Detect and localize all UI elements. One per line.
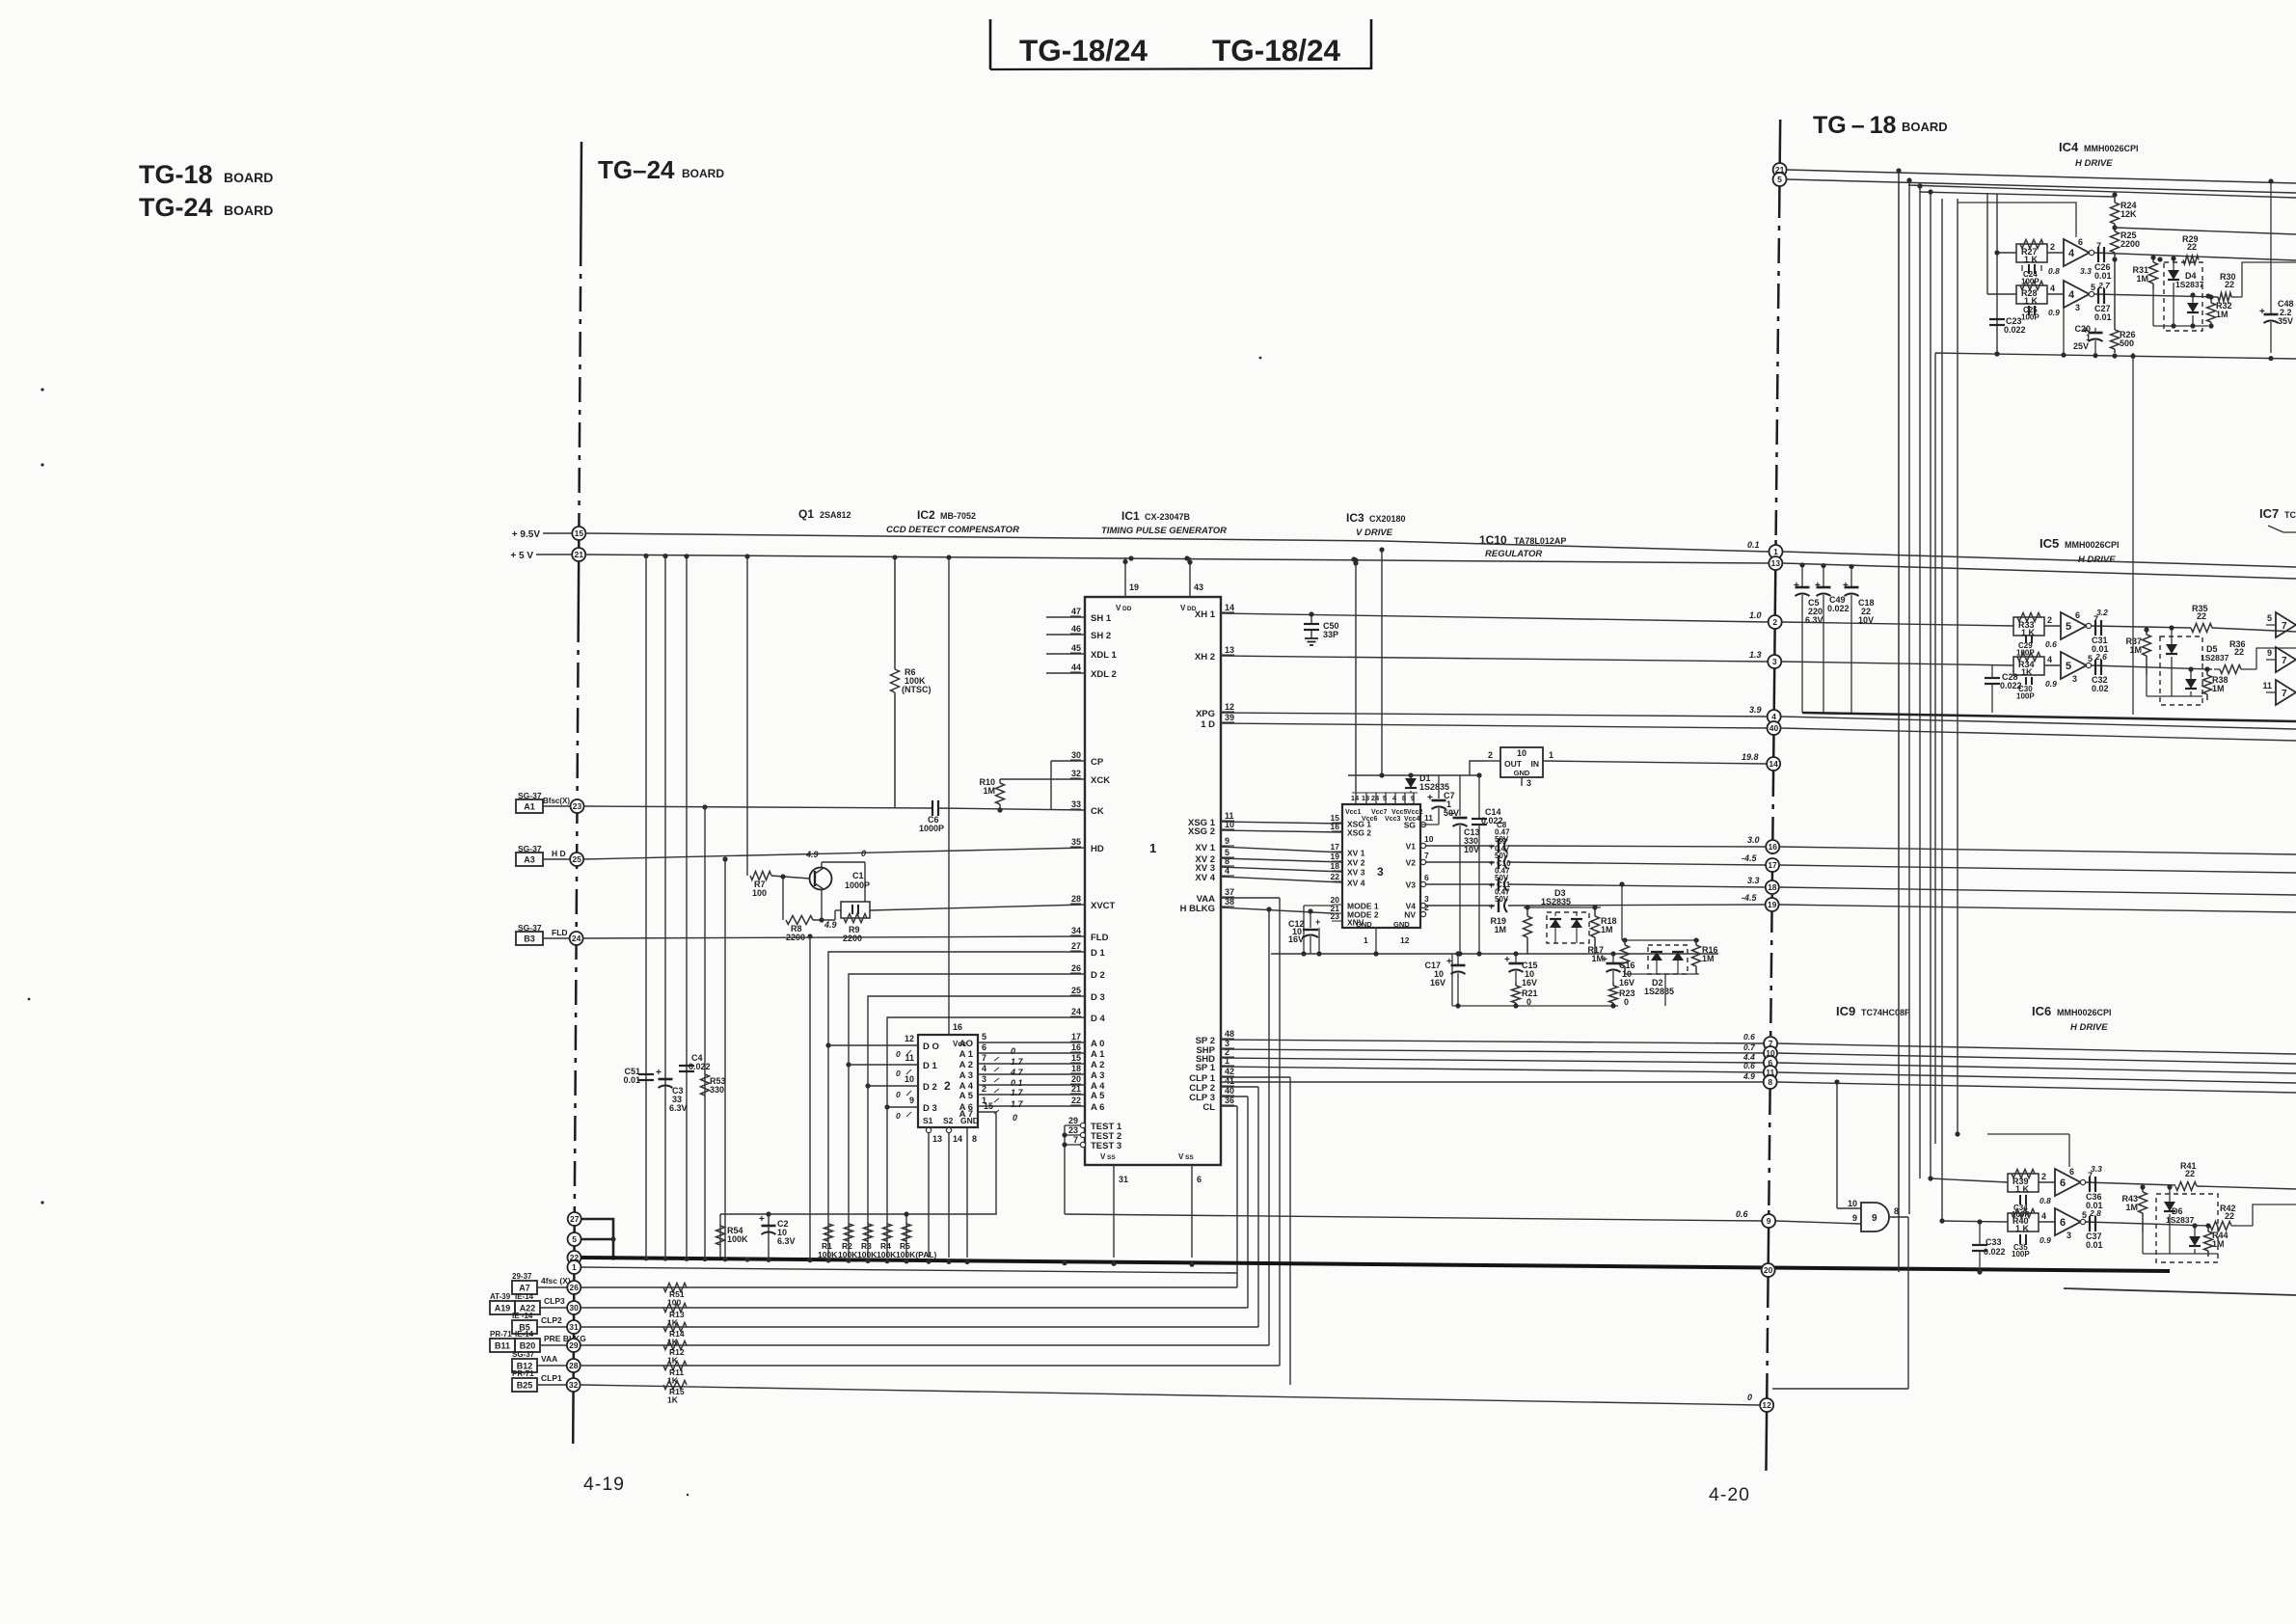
svg-text:IC4: IC4 — [2059, 140, 2079, 154]
svg-text:0.1: 0.1 — [1747, 540, 1760, 550]
svg-text:13: 13 — [932, 1134, 942, 1144]
svg-text:11: 11 — [905, 1053, 914, 1063]
svg-text:16: 16 — [1071, 1042, 1081, 1052]
svg-text:A 1: A 1 — [1091, 1049, 1105, 1060]
svg-text:0.6: 0.6 — [1743, 1032, 1755, 1042]
svg-text:CLP3: CLP3 — [544, 1296, 565, 1306]
svg-text:Q1: Q1 — [798, 507, 814, 521]
svg-text:XDL 1: XDL 1 — [1091, 650, 1117, 661]
svg-text:A 3: A 3 — [959, 1070, 973, 1081]
svg-text:22: 22 — [2225, 280, 2234, 289]
svg-text:+: + — [1843, 581, 1849, 591]
svg-text:10: 10 — [905, 1074, 914, 1084]
svg-text:42: 42 — [1225, 1067, 1234, 1076]
svg-text:XV 4: XV 4 — [1195, 873, 1215, 883]
svg-text:0.01: 0.01 — [2094, 312, 2112, 322]
svg-text:6.3V: 6.3V — [1805, 615, 1823, 625]
svg-text:8: 8 — [1894, 1206, 1899, 1216]
svg-text:1K: 1K — [667, 1395, 679, 1405]
svg-text:0.022: 0.022 — [2004, 325, 2026, 335]
svg-text:IC3: IC3 — [1346, 511, 1364, 525]
svg-text:CX-23047B: CX-23047B — [1145, 512, 1191, 522]
svg-text:33: 33 — [1071, 799, 1081, 809]
svg-text:XV 4: XV 4 — [1347, 879, 1365, 888]
svg-text:A 0: A 0 — [1091, 1039, 1104, 1049]
svg-text:29-37: 29-37 — [512, 1272, 532, 1281]
svg-text:5: 5 — [1777, 175, 1782, 184]
svg-text:Vcc2: Vcc2 — [1407, 809, 1422, 816]
svg-text:SG-37: SG-37 — [512, 1350, 535, 1359]
svg-text:4: 4 — [1771, 712, 1776, 721]
svg-text:0: 0 — [896, 1069, 901, 1078]
svg-text:VAA: VAA — [541, 1354, 557, 1364]
svg-text:1: 1 — [1773, 547, 1778, 556]
svg-text:12: 12 — [1400, 935, 1410, 945]
svg-text:6: 6 — [1197, 1175, 1202, 1184]
svg-text:1S2837: 1S2837 — [2175, 280, 2204, 289]
svg-text:6: 6 — [2078, 237, 2083, 247]
svg-text:20: 20 — [1764, 1265, 1773, 1275]
svg-text:2: 2 — [2047, 615, 2052, 625]
svg-text:BOARD: BOARD — [1902, 120, 1948, 134]
svg-text:+: + — [1815, 581, 1821, 591]
svg-text:C33: C33 — [1985, 1237, 2002, 1247]
svg-text:S2: S2 — [943, 1116, 954, 1125]
svg-text:16V: 16V — [1619, 978, 1634, 988]
svg-text:7: 7 — [2282, 621, 2287, 632]
svg-text:CLP1: CLP1 — [541, 1373, 562, 1383]
svg-text:1 K: 1 K — [2021, 628, 2036, 637]
svg-text:XV 1: XV 1 — [1195, 843, 1215, 853]
svg-text:Vcc3: Vcc3 — [1385, 816, 1400, 823]
svg-text:0: 0 — [1011, 1046, 1015, 1056]
svg-text:24: 24 — [1071, 1007, 1081, 1016]
svg-text:7: 7 — [1424, 851, 1429, 860]
svg-text:9: 9 — [1225, 836, 1229, 846]
svg-text:1M: 1M — [2125, 1203, 2138, 1212]
svg-text:5: 5 — [2066, 621, 2071, 633]
svg-text:3.3: 3.3 — [2091, 1164, 2102, 1174]
svg-text:46: 46 — [1071, 624, 1081, 634]
svg-text:REGULATOR: REGULATOR — [1485, 549, 1542, 559]
svg-text:14: 14 — [1351, 794, 1360, 802]
svg-text:2: 2 — [1488, 750, 1493, 760]
svg-text:V: V — [1116, 604, 1121, 612]
svg-text:1: 1 — [1549, 750, 1553, 760]
svg-text:D 3: D 3 — [1091, 992, 1105, 1003]
svg-text:PR-71: PR-71 — [512, 1369, 534, 1378]
svg-text:D 4: D 4 — [1091, 1014, 1106, 1024]
svg-text:22: 22 — [2185, 1169, 2195, 1178]
svg-text:6: 6 — [2060, 1177, 2066, 1189]
svg-text:D 1: D 1 — [1091, 948, 1106, 959]
svg-text:0: 0 — [1624, 997, 1629, 1007]
svg-text:1S2835: 1S2835 — [1541, 897, 1571, 907]
svg-text:0: 0 — [1526, 997, 1531, 1007]
svg-text:8: 8 — [972, 1134, 977, 1144]
svg-text:B3: B3 — [524, 934, 535, 944]
svg-text:2200: 2200 — [2120, 239, 2140, 249]
svg-text:4: 4 — [2041, 1211, 2046, 1221]
svg-text:1.7: 1.7 — [1011, 1057, 1024, 1067]
svg-text:12: 12 — [905, 1034, 914, 1043]
svg-text:V2: V2 — [1406, 858, 1417, 868]
svg-text:4.7: 4.7 — [1010, 1068, 1024, 1077]
svg-text:2200: 2200 — [786, 933, 805, 942]
svg-text:100P: 100P — [2021, 313, 2039, 322]
svg-text:XVCT: XVCT — [1091, 901, 1116, 911]
svg-text:7: 7 — [2282, 689, 2287, 699]
svg-text:27: 27 — [1071, 941, 1081, 951]
svg-text:16V: 16V — [1288, 934, 1304, 944]
svg-text:29: 29 — [1068, 1116, 1078, 1125]
svg-text:0.9: 0.9 — [2048, 308, 2060, 317]
svg-text:3: 3 — [1526, 778, 1531, 788]
svg-text:3.3: 3.3 — [1747, 876, 1760, 885]
svg-text:500: 500 — [2120, 338, 2134, 348]
svg-text:GND: GND — [1393, 920, 1410, 929]
svg-text:A7: A7 — [519, 1284, 530, 1293]
svg-text:1.7: 1.7 — [1011, 1099, 1024, 1109]
svg-text:0: 0 — [896, 1090, 901, 1099]
svg-text:SS: SS — [1107, 1154, 1116, 1161]
svg-text:4: 4 — [2047, 655, 2052, 664]
svg-text:IC7: IC7 — [2259, 506, 2279, 521]
svg-text:A 5: A 5 — [959, 1091, 974, 1101]
svg-text:8: 8 — [1768, 1077, 1772, 1087]
svg-text:20: 20 — [1071, 1074, 1081, 1084]
svg-text:+: + — [1446, 957, 1452, 967]
svg-text:XV 2: XV 2 — [1347, 858, 1365, 868]
svg-text:IC1: IC1 — [1121, 509, 1140, 523]
svg-text:23: 23 — [1068, 1125, 1078, 1135]
svg-text:25V: 25V — [2073, 341, 2089, 351]
svg-text:100: 100 — [752, 888, 767, 898]
svg-text:26: 26 — [1071, 963, 1081, 973]
svg-text:IC5: IC5 — [2039, 536, 2059, 551]
svg-text:B20: B20 — [520, 1341, 536, 1351]
svg-text:12: 12 — [1762, 1400, 1771, 1410]
svg-text:24: 24 — [572, 934, 581, 943]
svg-text:XSG 2: XSG 2 — [1347, 828, 1371, 838]
svg-text:35V: 35V — [2278, 316, 2293, 326]
svg-text:9: 9 — [1767, 1216, 1771, 1226]
svg-text:A 1: A 1 — [959, 1049, 974, 1060]
svg-text:1S2837: 1S2837 — [2201, 653, 2229, 663]
svg-text:V3: V3 — [1406, 880, 1417, 890]
svg-text:10: 10 — [1424, 834, 1434, 844]
svg-text:2200: 2200 — [843, 934, 862, 943]
svg-text:25: 25 — [1071, 986, 1081, 995]
svg-text:13: 13 — [1362, 794, 1369, 802]
svg-text:15: 15 — [984, 1101, 993, 1111]
svg-text:AT-39: AT-39 — [490, 1292, 511, 1301]
svg-text:1M: 1M — [1494, 925, 1506, 934]
svg-text:Vcc1: Vcc1 — [1345, 809, 1361, 816]
svg-text:0.7: 0.7 — [1743, 1042, 1756, 1052]
svg-text:A 2: A 2 — [1091, 1060, 1104, 1070]
svg-text:HD: HD — [1091, 844, 1104, 854]
svg-text:0.022: 0.022 — [1984, 1247, 2006, 1257]
svg-text:100K: 100K — [727, 1234, 748, 1244]
svg-text:XV 1: XV 1 — [1347, 849, 1365, 858]
svg-text:16V: 16V — [1522, 978, 1537, 988]
svg-text:1.3: 1.3 — [1749, 650, 1762, 660]
svg-text:7: 7 — [1073, 1135, 1078, 1145]
svg-text:19: 19 — [1768, 900, 1777, 909]
svg-text:43: 43 — [1194, 582, 1203, 592]
svg-text:18: 18 — [1071, 1064, 1081, 1073]
svg-text:GND: GND — [1356, 920, 1372, 929]
svg-text:MMH0026CPI: MMH0026CPI — [2057, 1008, 2112, 1017]
svg-text:3.3: 3.3 — [2080, 266, 2092, 276]
svg-text:OUT: OUT — [1504, 759, 1523, 769]
svg-text:1: 1 — [1149, 841, 1156, 855]
svg-text:30: 30 — [1071, 750, 1081, 760]
svg-text:XCK: XCK — [1091, 775, 1110, 786]
svg-text:10: 10 — [1517, 748, 1526, 758]
svg-text:5: 5 — [2082, 1210, 2087, 1220]
svg-text:+: + — [656, 1068, 662, 1078]
svg-text:PR-71: PR-71 — [490, 1330, 512, 1339]
svg-text:15: 15 — [575, 528, 584, 538]
svg-text:3: 3 — [2072, 674, 2077, 684]
svg-text:22: 22 — [2187, 242, 2197, 252]
svg-text:2: 2 — [944, 1079, 951, 1093]
svg-text:BOARD: BOARD — [224, 170, 273, 185]
svg-text:A19: A19 — [495, 1304, 511, 1313]
svg-text:1 D: 1 D — [1201, 719, 1215, 730]
svg-text:-4.5: -4.5 — [1742, 853, 1758, 863]
svg-text:NV: NV — [1404, 910, 1416, 920]
svg-text:GND: GND — [960, 1116, 979, 1125]
svg-text:11: 11 — [1424, 813, 1433, 823]
svg-text:44: 44 — [1071, 663, 1081, 672]
svg-text:6.3V: 6.3V — [777, 1236, 796, 1246]
svg-text:1.0: 1.0 — [1749, 610, 1762, 620]
svg-text:17: 17 — [1768, 860, 1777, 870]
svg-text:30: 30 — [569, 1303, 579, 1313]
svg-text:22: 22 — [1071, 1096, 1081, 1105]
svg-text:5: 5 — [2088, 654, 2093, 663]
svg-text:4: 4 — [982, 1064, 986, 1073]
svg-text:IE -14: IE -14 — [512, 1312, 533, 1320]
svg-text:1000P: 1000P — [845, 880, 870, 890]
svg-text:0.01: 0.01 — [2094, 271, 2112, 281]
svg-text:A 3: A 3 — [1091, 1070, 1104, 1081]
svg-text:4.9: 4.9 — [805, 850, 819, 859]
svg-text:32: 32 — [569, 1380, 579, 1390]
svg-text:Bfsc(X): Bfsc(X) — [543, 797, 570, 805]
svg-text:V: V — [1178, 1152, 1184, 1161]
svg-text:13: 13 — [1771, 558, 1781, 568]
svg-text:+: + — [1489, 858, 1494, 868]
svg-text:6: 6 — [1424, 873, 1429, 882]
svg-text:+: + — [1315, 917, 1320, 927]
svg-text:TEST 3: TEST 3 — [1091, 1141, 1121, 1151]
svg-text:D O: D O — [923, 1042, 939, 1052]
svg-text:2: 2 — [2050, 242, 2055, 252]
svg-text:1S2835: 1S2835 — [1644, 987, 1674, 996]
svg-text:XH 1: XH 1 — [1195, 609, 1216, 620]
svg-text:100P: 100P — [2012, 1250, 2030, 1259]
svg-text:-4.5: -4.5 — [1742, 893, 1758, 903]
svg-text:CP: CP — [1091, 757, 1104, 768]
svg-text:SH 1: SH 1 — [1091, 613, 1112, 624]
svg-text:0.022: 0.022 — [689, 1062, 711, 1071]
svg-text:26: 26 — [570, 1283, 580, 1292]
svg-text:45: 45 — [1071, 643, 1081, 653]
svg-text:+: + — [1489, 842, 1494, 852]
svg-text:0: 0 — [861, 849, 866, 858]
svg-text:TIMING PULSE GENERATOR: TIMING PULSE GENERATOR — [1101, 526, 1227, 536]
svg-text:330: 330 — [710, 1085, 724, 1095]
svg-text:CX20180: CX20180 — [1369, 514, 1406, 524]
svg-text:0.6: 0.6 — [1743, 1061, 1755, 1070]
svg-text:0.9: 0.9 — [2039, 1235, 2051, 1245]
svg-text:19.8: 19.8 — [1742, 752, 1759, 762]
svg-text:23: 23 — [1331, 911, 1340, 921]
svg-text:33P: 33P — [1323, 630, 1338, 639]
svg-text:FLD: FLD — [552, 928, 568, 937]
svg-text:A 5: A 5 — [1091, 1091, 1105, 1101]
svg-text:H DRIVE: H DRIVE — [2078, 555, 2116, 565]
svg-text:17: 17 — [1331, 842, 1340, 852]
svg-text:0: 0 — [896, 1111, 901, 1121]
svg-text:28: 28 — [569, 1361, 579, 1370]
svg-text:14: 14 — [953, 1134, 962, 1144]
svg-text:IE-14: IE-14 — [515, 1292, 534, 1301]
svg-text:1 K: 1 K — [2024, 296, 2039, 306]
svg-text:IC6: IC6 — [2032, 1004, 2051, 1018]
svg-text:0.8: 0.8 — [2048, 266, 2060, 276]
svg-text:A1: A1 — [524, 802, 535, 812]
svg-text:DD: DD — [1122, 606, 1132, 612]
svg-text:XDL 2: XDL 2 — [1091, 669, 1117, 680]
svg-text:D 2: D 2 — [923, 1082, 937, 1093]
svg-text:1.7: 1.7 — [1011, 1088, 1024, 1097]
svg-text:3: 3 — [1377, 865, 1384, 879]
svg-text:16: 16 — [1331, 822, 1340, 831]
svg-text:1: 1 — [572, 1262, 577, 1272]
svg-text:C1: C1 — [852, 871, 864, 880]
svg-text:+: + — [1427, 793, 1433, 803]
svg-text:47: 47 — [1071, 607, 1081, 616]
svg-text:5: 5 — [2066, 661, 2071, 672]
svg-text:4: 4 — [2068, 248, 2075, 259]
svg-text:1S2837: 1S2837 — [2166, 1215, 2195, 1225]
svg-text:0.022: 0.022 — [1827, 604, 1850, 613]
svg-text:0.6: 0.6 — [2045, 639, 2057, 649]
svg-text:XPG: XPG — [1196, 709, 1215, 719]
svg-text:1M: 1M — [2216, 310, 2228, 319]
svg-text:8: 8 — [1402, 794, 1406, 802]
svg-text:18: 18 — [1768, 882, 1777, 892]
svg-text:GND: GND — [1514, 769, 1530, 777]
svg-text:XV 3: XV 3 — [1347, 868, 1365, 878]
svg-text:48: 48 — [1225, 1029, 1234, 1039]
svg-text:TG–24: TG–24 — [598, 155, 675, 184]
svg-text:32: 32 — [1071, 769, 1081, 778]
svg-text:31: 31 — [1119, 1175, 1128, 1184]
svg-text:A3: A3 — [524, 855, 535, 865]
svg-text:14: 14 — [1225, 603, 1234, 612]
svg-text:V: V — [1180, 604, 1186, 612]
svg-text:2: 2 — [1772, 617, 1777, 627]
svg-text:CK: CK — [1091, 806, 1104, 817]
svg-text:13: 13 — [1225, 645, 1234, 655]
svg-text:0.01: 0.01 — [623, 1075, 640, 1085]
svg-text:IC2: IC2 — [917, 508, 935, 522]
svg-text:MB-7052: MB-7052 — [940, 511, 976, 521]
svg-text:4.9: 4.9 — [824, 920, 837, 930]
svg-text:TG-24: TG-24 — [139, 193, 213, 222]
svg-text:0.1: 0.1 — [1011, 1078, 1023, 1088]
svg-text:18: 18 — [1331, 861, 1340, 871]
svg-text:H DRIVE: H DRIVE — [2070, 1022, 2108, 1033]
svg-text:A 6: A 6 — [1091, 1102, 1104, 1113]
svg-text:1 K: 1 K — [2015, 1184, 2030, 1194]
svg-text:CLP2: CLP2 — [541, 1315, 562, 1325]
svg-text:IN: IN — [1531, 759, 1540, 769]
svg-text:B25: B25 — [517, 1381, 533, 1391]
svg-text:29: 29 — [569, 1340, 579, 1350]
svg-text:+: + — [1504, 955, 1510, 965]
svg-text:1M: 1M — [983, 786, 995, 796]
svg-text:3.9: 3.9 — [1749, 705, 1762, 715]
svg-text:39: 39 — [1225, 713, 1234, 722]
svg-text:19: 19 — [1129, 582, 1139, 592]
svg-text:Vcc7: Vcc7 — [1371, 809, 1387, 816]
svg-text:2: 2 — [2041, 1172, 2046, 1181]
svg-text:6: 6 — [2060, 1217, 2066, 1229]
svg-text:SH 2: SH 2 — [1091, 631, 1111, 641]
svg-text:+: + — [1489, 880, 1494, 890]
svg-text:0.022: 0.022 — [2000, 681, 2022, 690]
svg-text:2: 2 — [1424, 903, 1429, 912]
svg-text:25: 25 — [572, 854, 581, 864]
svg-text:0.6: 0.6 — [1736, 1209, 1749, 1219]
svg-text:1M: 1M — [2212, 1239, 2225, 1249]
svg-text:1 K: 1 K — [2015, 1224, 2030, 1233]
svg-text:6: 6 — [2069, 1167, 2074, 1177]
svg-text:CL: CL — [1202, 1102, 1215, 1113]
svg-text:3: 3 — [2075, 303, 2080, 312]
svg-text:9: 9 — [1411, 794, 1415, 802]
svg-text:16: 16 — [1769, 842, 1778, 852]
svg-text:S1: S1 — [923, 1116, 933, 1125]
svg-text:TC74HC08F: TC74HC08F — [1861, 1008, 1910, 1017]
svg-text:34: 34 — [1071, 926, 1081, 935]
svg-text:35: 35 — [1071, 837, 1081, 847]
svg-text:16: 16 — [953, 1022, 962, 1032]
svg-text:100K: 100K — [877, 1250, 897, 1259]
svg-text:9: 9 — [1852, 1213, 1857, 1223]
svg-text:0: 0 — [1013, 1113, 1017, 1123]
svg-text:17: 17 — [1071, 1032, 1081, 1042]
svg-text:3.0: 3.0 — [1747, 835, 1760, 845]
svg-text:FLD: FLD — [1091, 933, 1109, 943]
svg-text:H DRIVE: H DRIVE — [2075, 158, 2113, 169]
svg-text:CCD DETECT COMPENSATOR: CCD DETECT COMPENSATOR — [886, 525, 1019, 535]
svg-text:1M: 1M — [1601, 925, 1613, 934]
svg-text:4: 4 — [2068, 289, 2075, 301]
svg-text:3: 3 — [2066, 1231, 2071, 1240]
svg-text:15: 15 — [1071, 1053, 1081, 1063]
svg-text:3: 3 — [1772, 657, 1777, 666]
svg-text:+: + — [1602, 955, 1607, 965]
svg-text:+: + — [1489, 902, 1494, 911]
